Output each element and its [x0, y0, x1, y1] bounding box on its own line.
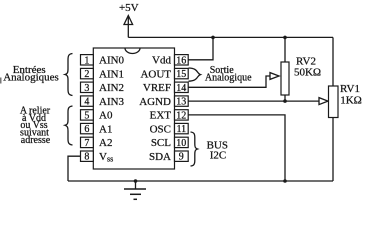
svg-text:4: 4 [84, 97, 89, 108]
svg-text:1: 1 [84, 55, 89, 66]
RV2 wiper arrow from VREF [188, 73, 279, 88]
wire AGND pin13 to RV1 wiper [188, 100, 319, 102]
ground [124, 181, 146, 199]
pin 2 [81, 68, 94, 80]
svg-text:OSC: OSC [150, 123, 171, 135]
pin 4 [81, 96, 94, 108]
svg-text:2: 2 [84, 69, 89, 80]
junction dot ground/EXT [283, 179, 287, 183]
svg-text:A2: A2 [99, 137, 112, 149]
wire RV2 bottom to AGND line [284, 95, 286, 101]
svg-text:A0: A0 [99, 110, 113, 122]
svg-text:VREF: VREF [143, 82, 171, 94]
wire Vdd pin16 to rail [188, 37, 213, 59]
svg-text:RV2: RV2 [296, 55, 316, 67]
pin 15 [175, 68, 189, 80]
svg-text:AGND: AGND [139, 96, 171, 108]
svg-text:I2C: I2C [210, 150, 227, 162]
pin 8 [81, 151, 94, 163]
pin 10 [175, 137, 189, 149]
wire RV1 bottom to ground rail [332, 118, 334, 182]
svg-text:50KΩ: 50KΩ [294, 67, 321, 79]
junction dot rail/Vdd [211, 36, 215, 40]
brace sortie analogique [189, 68, 201, 81]
brace entrées analogiques [65, 54, 73, 96]
svg-text:A1: A1 [99, 123, 112, 135]
svg-text:AIN0: AIN0 [99, 55, 125, 67]
IC U1 body [93, 48, 174, 169]
wire ground rail [68, 180, 333, 182]
junction dot AGND/RV2 [283, 99, 287, 103]
potentiometer RV2 body [281, 62, 289, 95]
svg-text:14: 14 [176, 83, 186, 94]
svg-text:SDA: SDA [149, 151, 171, 163]
pin 14 [175, 82, 189, 94]
wire +5V rail [128, 36, 333, 38]
pin 5 [81, 110, 94, 122]
pin 7 [81, 137, 94, 149]
svg-text:AIN1: AIN1 [99, 68, 124, 80]
+5V arrow [124, 16, 133, 38]
edge artifact [0, 78, 2, 84]
svg-text:7: 7 [84, 138, 89, 149]
wire rail to RV1 top [332, 37, 334, 86]
svg-text:1KΩ: 1KΩ [340, 95, 362, 107]
svg-text:SCL: SCL [151, 137, 171, 149]
svg-text:16: 16 [176, 55, 186, 66]
svg-text:3: 3 [84, 83, 89, 94]
pin 11 [175, 123, 189, 135]
RV1 wiper arrowhead [319, 98, 328, 105]
svg-text:AIN2: AIN2 [99, 82, 124, 94]
svg-text:+5V: +5V [119, 2, 139, 14]
svg-text:11: 11 [176, 124, 186, 135]
pin 9 [175, 151, 189, 163]
junction dot rail/RV2 [283, 36, 287, 40]
potentiometer RV1 body [329, 86, 339, 118]
wire EXT pin12 down to ground rail [188, 115, 285, 181]
pin 6 [81, 123, 94, 135]
brace adresse [65, 106, 73, 145]
wire Vss pin8 to ground rail [68, 156, 81, 181]
svg-text:adresse: adresse [21, 135, 51, 146]
svg-text:Analogiques: Analogiques [3, 72, 59, 84]
pin 3 [81, 82, 94, 94]
svg-text:10: 10 [176, 138, 186, 149]
svg-text:AIN3: AIN3 [99, 96, 125, 108]
svg-text:AOUT: AOUT [140, 68, 171, 80]
svg-text:9: 9 [179, 152, 184, 163]
junction dot ground symbol [134, 179, 138, 183]
pin 1 [81, 55, 94, 67]
pin 16 [175, 55, 189, 67]
svg-text:Analogique: Analogique [205, 72, 252, 83]
wire rail to RV2 top [284, 37, 286, 62]
svg-text:15: 15 [176, 69, 186, 80]
svg-text:5: 5 [84, 110, 89, 121]
pin 12 [175, 110, 189, 122]
svg-text:12: 12 [176, 110, 186, 121]
svg-text:EXT: EXT [150, 110, 172, 122]
svg-text:6: 6 [84, 124, 89, 135]
svg-text:Vdd: Vdd [152, 55, 171, 67]
IC notch [125, 48, 140, 54]
brace bus i2c [191, 132, 198, 166]
svg-text:13: 13 [176, 97, 186, 108]
pin 13 [175, 96, 189, 108]
svg-text:8: 8 [84, 152, 89, 163]
svg-text:RV1: RV1 [340, 83, 360, 95]
